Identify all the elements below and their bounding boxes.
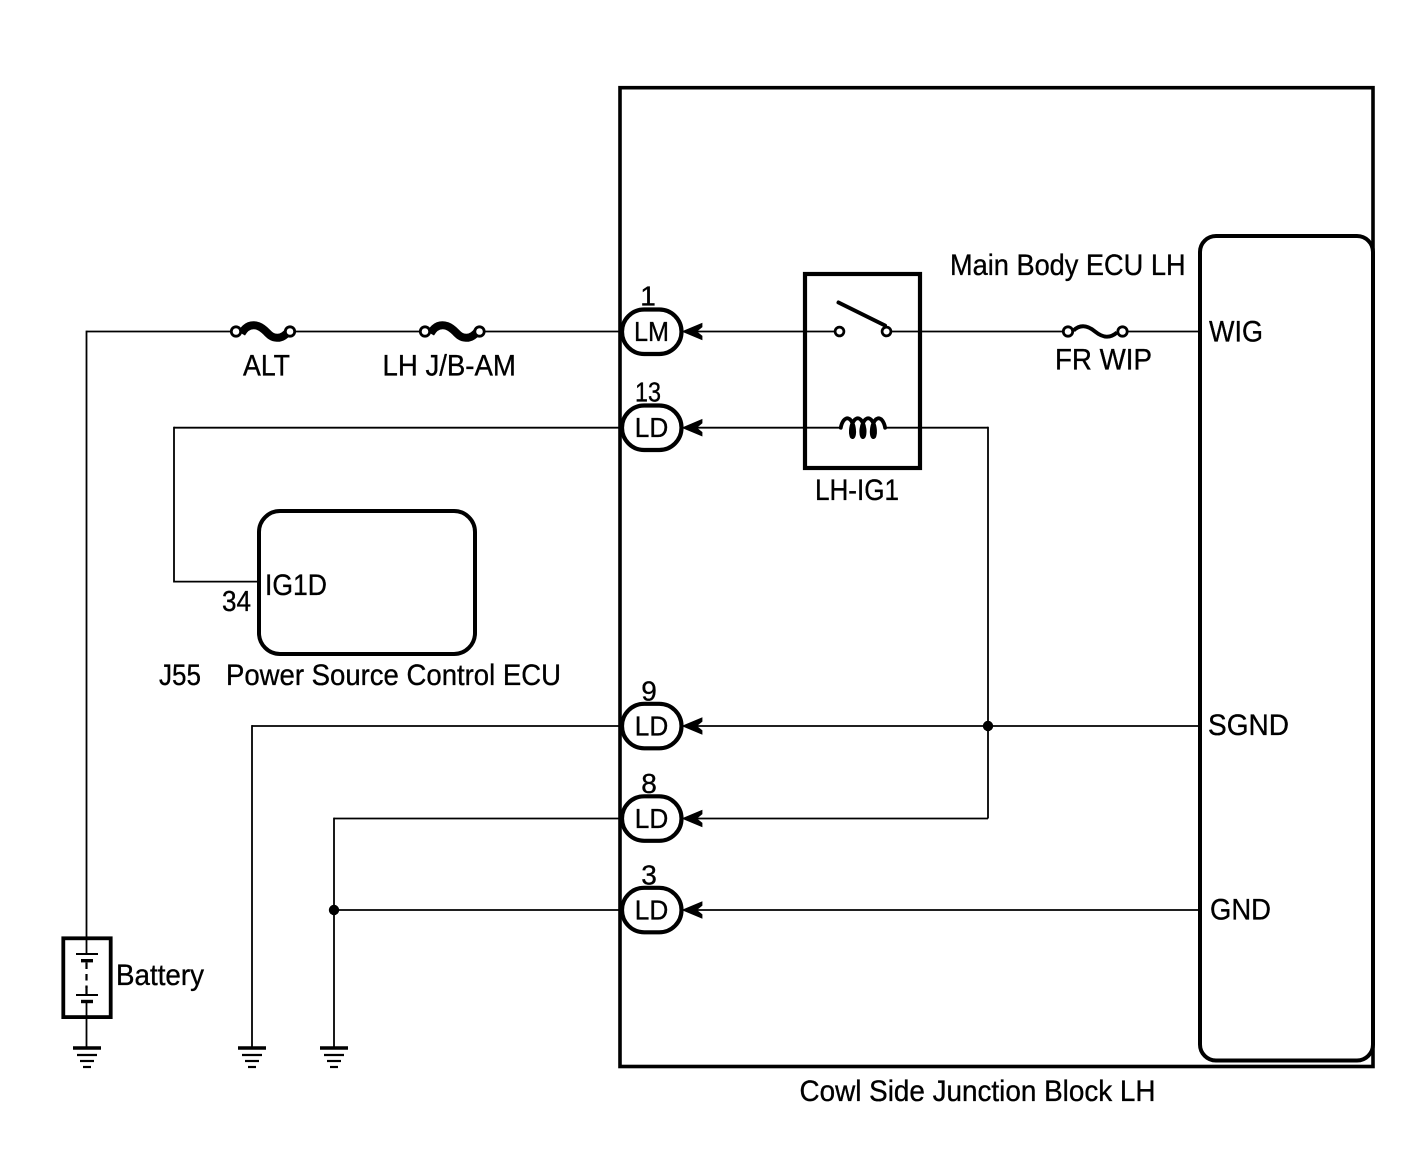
wire battery vertical drop [86, 331, 88, 938]
wire coil to corner riser [885, 427, 988, 429]
arrowhead pin 8 [682, 810, 703, 828]
svg-text:Main Body ECU LH: Main Body ECU LH [950, 249, 1186, 282]
wire riser coil down to pin8 line [987, 427, 989, 819]
fuse FR WIP [1063, 326, 1127, 336]
svg-text:FR WIP: FR WIP [1055, 344, 1152, 377]
ground pin9 [238, 1048, 266, 1067]
wire pin13 to relay coil [695, 427, 841, 429]
wire ground riser pin8/pin3 [333, 818, 335, 1047]
svg-text:LH-IG1: LH-IG1 [815, 474, 899, 507]
wire pin8 outside to ground riser [334, 818, 620, 820]
wire pin8 to riser [695, 818, 988, 820]
arrowhead pin 3 [682, 901, 703, 919]
arrowhead pin 9 [682, 717, 703, 735]
svg-text:LD: LD [635, 803, 669, 834]
wire SGND: pin9 to ECU [695, 725, 1200, 727]
wire battery to ground [86, 1017, 88, 1047]
svg-text:WIG: WIG [1209, 316, 1263, 349]
wire pin1 to relay switch [695, 331, 835, 333]
connector Main Body ECU LH [1200, 236, 1373, 1061]
junction dot pin3 ground [329, 905, 339, 915]
junction block Cowl Side Junction Block LH [620, 88, 1373, 1067]
svg-text:LM: LM [634, 316, 669, 347]
relay switch contacts [835, 327, 891, 336]
wire LH J/B-AM to junction block [485, 331, 621, 333]
svg-text:SGND: SGND [1208, 709, 1289, 742]
ground battery [73, 1048, 101, 1067]
relay switch blade [839, 303, 886, 326]
pin 8 terminal LD [622, 796, 682, 841]
relay LH-IG1 box [805, 274, 920, 468]
svg-text:13: 13 [635, 377, 661, 408]
pin 1 terminal LM [622, 310, 682, 355]
wire battery to ALT (horizontal) [87, 331, 232, 333]
svg-text:GND: GND [1210, 894, 1271, 927]
pin 13 terminal LD [622, 406, 682, 451]
pin 9 terminal LD [622, 704, 682, 749]
arrowhead pin 1 [682, 323, 703, 341]
wire riser to J55 [174, 427, 259, 582]
svg-text:LH J/B-AM: LH J/B-AM [383, 350, 516, 383]
svg-text:J55: J55 [159, 659, 201, 692]
wire LD13 outside: from J55 riser to block [174, 427, 620, 429]
battery [63, 938, 110, 1017]
svg-text:LD: LD [635, 711, 669, 742]
wire ground riser pin9 [251, 725, 253, 1046]
svg-text:Power Source Control ECU: Power Source Control ECU [226, 659, 561, 692]
wire GND: pin3 to ECU [695, 909, 1200, 911]
pin 3 terminal LD [622, 888, 682, 933]
svg-text:IG1D: IG1D [265, 569, 327, 602]
svg-text:34: 34 [222, 586, 251, 618]
wire ALT to LH J/B-AM [295, 331, 420, 333]
ground pin8/pin3 [320, 1048, 348, 1067]
svg-text:LD: LD [635, 895, 669, 926]
junction dot SGND [983, 721, 993, 731]
relay coil [841, 418, 885, 437]
svg-text:Cowl Side Junction Block LH: Cowl Side Junction Block LH [800, 1075, 1156, 1108]
svg-text:1: 1 [640, 281, 656, 312]
wire pin3 outside to junction [334, 909, 620, 911]
arrowhead pin 13 [682, 419, 703, 437]
wire FR WIP to WIG [1128, 331, 1200, 333]
svg-text:LD: LD [635, 412, 669, 443]
svg-text:ALT: ALT [243, 350, 290, 383]
svg-text:Battery: Battery [116, 959, 204, 992]
fusible link ALT [231, 325, 294, 338]
fusible link LH J/B-AM [420, 325, 484, 338]
wire pin9 outside to ground riser [252, 725, 620, 727]
ECU J55 Power Source Control ECU box [259, 511, 475, 654]
wire switch to FR WIP [891, 331, 1063, 333]
